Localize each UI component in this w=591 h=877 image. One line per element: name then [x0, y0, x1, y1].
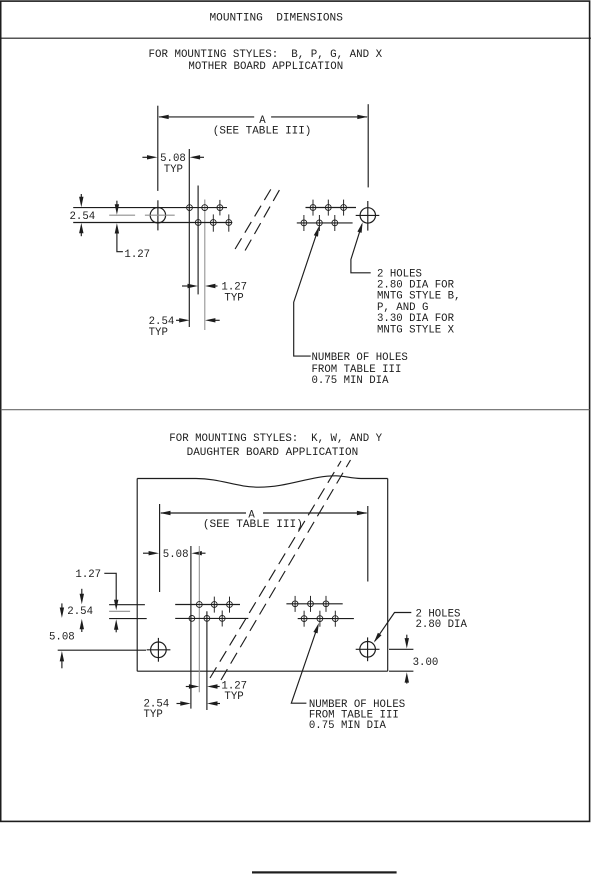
- pin hole tick: [325, 596, 327, 612]
- pin hole top row: [217, 205, 223, 211]
- left mounting hole horizontal crosshair (bottom): [147, 649, 171, 651]
- svg-text:0.75 MIN DIA: 0.75 MIN DIA: [312, 375, 389, 387]
- svg-text:2.54: 2.54: [67, 606, 93, 618]
- board outline right edge: [387, 479, 389, 672]
- 2.54 dim lower arrowhead (bottom): [80, 619, 84, 629]
- 1.27 TYP left arrowhead (bottom): [189, 684, 199, 688]
- gray extension line thru top-row hole 2: [204, 200, 206, 331]
- board outline top edge with break wave: [137, 476, 388, 487]
- right pin hole top row: [341, 205, 347, 211]
- 1.27 dim lower arrow shaft (bottom): [115, 626, 117, 632]
- 3.00 dim upper arrowhead: [405, 638, 409, 648]
- lower row centerline (bottom right group): [298, 618, 354, 620]
- 1.27 dim upper arrowhead: [115, 204, 119, 214]
- 2.54 TYP right arrowhead (bottom): [207, 701, 217, 705]
- 1.27 TYP right arrow tail: [211, 285, 218, 287]
- pin hole bottom row: [210, 220, 216, 226]
- pin hole tick: [327, 200, 329, 216]
- 1.27 dim leader bracket (bottom): [104, 573, 116, 602]
- right top row centerline: [306, 207, 357, 209]
- 1.27 dim upper arrow shaft: [116, 201, 118, 208]
- right mounting hole horizontal crosshair (bottom): [356, 648, 380, 650]
- pin hole tick: [221, 611, 223, 627]
- dim A left arrowhead (bottom): [160, 511, 170, 515]
- pin hole top row: [202, 205, 208, 211]
- upper row centerline (bottom right group): [286, 603, 342, 605]
- upper row centerline (bottom left group): [175, 604, 240, 606]
- pin hole lower row (bottom left): [219, 616, 225, 622]
- pin hole tick: [219, 200, 221, 216]
- pin hole bottom row: [226, 220, 232, 226]
- 2.54 dim upper arrowhead (bottom): [80, 594, 84, 604]
- dim A line right segment: [271, 116, 367, 118]
- svg-text:0.75 MIN DIA: 0.75 MIN DIA: [309, 720, 386, 732]
- svg-text:5.08: 5.08: [163, 549, 189, 561]
- svg-text:(SEE TABLE III): (SEE TABLE III): [213, 126, 312, 138]
- 1.27 dim leader bracket: [117, 230, 123, 252]
- 2.54 dim upper arrow shaft (bottom): [81, 589, 83, 597]
- svg-text:1.27: 1.27: [75, 569, 101, 581]
- pin hole lower row (bottom right): [317, 616, 323, 622]
- 2.54 dim lower arrow shaft (bottom): [81, 626, 83, 632]
- svg-text:MOUNTING DIMENSIONS: MOUNTING DIMENSIONS: [210, 13, 344, 25]
- 1.27 dim lower arrowhead: [115, 223, 119, 233]
- pin hole upper row (bottom right): [308, 601, 314, 607]
- pin hole upper row (bottom left): [227, 602, 233, 608]
- pin hole tick: [343, 200, 345, 216]
- pin hole tick: [334, 611, 336, 627]
- dim A line left segment (bottom): [161, 512, 246, 514]
- svg-text:MOTHER BOARD APPLICATION: MOTHER BOARD APPLICATION: [188, 61, 343, 73]
- svg-text:2 HOLES: 2 HOLES: [377, 268, 422, 280]
- svg-text:5.08: 5.08: [49, 631, 75, 643]
- upper row extension line (bottom): [109, 604, 145, 606]
- 5.08 dim left arrowhead (bottom): [149, 551, 159, 555]
- 2.54 TYP right arrowhead: [205, 318, 215, 322]
- right bottom row centerline: [297, 222, 353, 224]
- 1.27 TYP right arrowhead: [205, 284, 215, 288]
- extension line thru lower-row hole 1 (bottom): [190, 546, 192, 709]
- pin hole tick: [310, 596, 312, 612]
- pin hole upper row (bottom left): [196, 602, 202, 608]
- svg-text:2.80 DIA FOR: 2.80 DIA FOR: [377, 280, 454, 292]
- 2 HOLES leader arrowhead: [357, 222, 362, 233]
- svg-text:TYP: TYP: [144, 709, 164, 721]
- left mounting hole vertical crosshair (bottom): [157, 638, 159, 662]
- 1.27 dim upper arrowhead (bottom): [114, 600, 118, 610]
- pin hole upper row (bottom left): [211, 602, 217, 608]
- pin hole tick: [312, 200, 314, 216]
- board outline bottom edge: [137, 670, 388, 672]
- right pin hole top row: [310, 205, 316, 211]
- svg-text:TYP: TYP: [224, 292, 244, 304]
- pin hole tick: [318, 215, 320, 231]
- 2 HOLES leader line (bottom): [375, 613, 412, 642]
- extension line thru top-row hole 1: [188, 149, 190, 327]
- left mounting hole horizontal crosshair: [145, 214, 175, 216]
- 2.54 TYP left arrowhead (bottom): [180, 701, 190, 705]
- 1.27 dim lower arrowhead (bottom): [114, 619, 118, 629]
- 5.08 dim lower arrowhead (bottom left): [60, 651, 64, 661]
- gray mid centerline (bottom): [109, 610, 130, 612]
- lower row centerline (bottom left group): [175, 617, 248, 619]
- pin hole upper row (bottom right): [323, 601, 329, 607]
- dim A left extension line (bottom): [159, 504, 161, 592]
- NUMBER OF HOLES leader line: [294, 228, 319, 356]
- left mounting hole (bottom): [151, 642, 167, 658]
- 2.54 TYP left arrow tail (bottom): [177, 703, 182, 705]
- extension line thru lower-row hole 2 (bottom): [206, 611, 208, 710]
- svg-text:TYP: TYP: [224, 691, 244, 703]
- 3.00 dim lower arrow shaft: [406, 679, 408, 683]
- dim A line right segment (bottom): [263, 512, 367, 514]
- 5.08 dim upper arrowhead (bottom left): [60, 608, 64, 618]
- extension line thru bottom-row hole 1: [197, 186, 199, 295]
- svg-text:FOR MOUNTING STYLES: K, W, AN: FOR MOUNTING STYLES: K, W, AND Y: [169, 433, 382, 445]
- pin hole tick: [228, 214, 230, 231]
- 5.08 dim left arrowhead: [147, 155, 157, 159]
- pin hole tick: [212, 214, 214, 231]
- 5.08 dim left arrow tail (bottom): [143, 552, 151, 554]
- 2.54 dim upper arrow shaft: [80, 194, 82, 200]
- 5.08 dim right arrowhead: [190, 155, 200, 159]
- board outline left edge: [136, 479, 138, 672]
- top row centerline: [73, 207, 227, 209]
- svg-text:2.80 DIA: 2.80 DIA: [416, 619, 468, 631]
- dim A right arrowhead (bottom): [357, 511, 367, 515]
- 1.27 TYP left arrow tail: [182, 285, 190, 287]
- 2 HOLES leader arrowhead (bottom): [374, 633, 382, 643]
- 5.08 dim upper arrow shaft (bottom left): [61, 603, 63, 610]
- 2.54 dim upper arrowhead: [79, 197, 83, 207]
- pin hole lower row (bottom right): [332, 616, 338, 622]
- svg-text:(SEE TABLE III): (SEE TABLE III): [203, 519, 303, 531]
- break line 1: [235, 187, 272, 250]
- pin hole top row: [187, 205, 193, 211]
- bottom row centerline: [73, 222, 232, 224]
- 5.08 dim right arrow tail: [196, 156, 204, 158]
- right pin hole bottom row: [332, 220, 338, 226]
- svg-text:FROM TABLE III: FROM TABLE III: [312, 364, 402, 376]
- dim A left extension line: [157, 106, 159, 191]
- 2.54 TYP left arrow tail: [176, 319, 181, 321]
- right mounting hole vertical crosshair: [367, 201, 369, 231]
- pin hole tick: [294, 596, 296, 612]
- svg-text:TYP: TYP: [149, 327, 169, 339]
- svg-text:NUMBER OF HOLES: NUMBER OF HOLES: [312, 352, 409, 364]
- svg-text:P, AND G: P, AND G: [377, 302, 429, 314]
- section divider line: [1, 409, 590, 411]
- svg-text:1.27: 1.27: [124, 249, 150, 261]
- pin hole tick: [334, 215, 336, 231]
- 5.08 dim lower arrow shaft (bottom left): [61, 658, 63, 668]
- 1.27 TYP left arrowhead: [188, 284, 198, 288]
- right mounting hole vertical crosshair (bottom): [367, 637, 369, 661]
- pin hole bottom row: [195, 220, 201, 226]
- pin hole lower row (bottom left): [189, 616, 195, 622]
- pin hole tick: [213, 597, 215, 613]
- 2.54 TYP right arrow tail (bottom): [214, 703, 221, 705]
- svg-text:2.54: 2.54: [70, 211, 96, 223]
- pin hole tick: [303, 611, 305, 627]
- dim A left arrowhead: [158, 115, 168, 119]
- left mounting hole: [150, 208, 165, 223]
- lower row extension line (bottom): [109, 618, 147, 620]
- 2.54 TYP right arrow tail: [211, 319, 220, 321]
- 2.54 TYP left arrowhead: [179, 318, 189, 322]
- mounting hole centerline extension right (bottom): [389, 648, 413, 650]
- 1.27 TYP left arrow tail (bottom): [186, 686, 191, 688]
- pin hole lower row (bottom right): [301, 616, 307, 622]
- break line 1 (bottom): [210, 461, 341, 678]
- pin hole upper row (bottom right): [292, 601, 298, 607]
- footer bar: [252, 871, 397, 873]
- 2 HOLES leader line: [351, 225, 371, 273]
- 3.00 dim lower arrowhead: [405, 672, 409, 682]
- NUMBER OF HOLES leader arrowhead: [314, 226, 319, 237]
- 2.54 dim lower arrow shaft: [80, 230, 82, 236]
- svg-text:FOR MOUNTING STYLES: B, P, G,: FOR MOUNTING STYLES: B, P, G, AND X: [149, 49, 383, 61]
- svg-text:3.00: 3.00: [413, 657, 439, 669]
- break line 2: [245, 186, 282, 251]
- 1.27 TYP right arrowhead (bottom): [207, 684, 217, 688]
- right mounting hole horizontal crosshair: [356, 214, 380, 216]
- NUMBER OF HOLES leader line (bottom): [291, 626, 318, 704]
- 5.08 dim left arrow tail: [142, 156, 151, 158]
- right mounting hole: [360, 208, 375, 223]
- break line 2 (bottom): [221, 460, 351, 680]
- NUMBER OF HOLES leader arrowhead (bottom): [313, 623, 319, 634]
- svg-text:3.30 DIA FOR: 3.30 DIA FOR: [377, 313, 454, 325]
- right mounting hole (bottom): [360, 642, 376, 658]
- svg-text:TYP: TYP: [164, 164, 184, 176]
- left mounting hole vertical crosshair: [157, 200, 159, 230]
- pin hole tick: [229, 597, 231, 613]
- svg-text:MNTG STYLE B,: MNTG STYLE B,: [377, 291, 461, 303]
- dim A right extension line: [367, 104, 369, 187]
- 5.08 dim right arrow tail (bottom): [198, 552, 206, 554]
- 5.08 dim right arrowhead (bottom): [191, 551, 201, 555]
- svg-text:MNTG STYLE X: MNTG STYLE X: [377, 324, 454, 336]
- right pin hole bottom row: [301, 220, 307, 226]
- gray extension line thru upper-row hole 1 (bottom): [198, 546, 200, 692]
- right pin hole bottom row: [317, 220, 323, 226]
- pin hole tick: [303, 215, 305, 231]
- board bottom edge extension (bottom): [389, 670, 413, 672]
- dim A right arrowhead: [357, 115, 367, 119]
- dim A right extension line (bottom): [367, 506, 369, 582]
- dim A line left segment: [159, 116, 254, 118]
- 3.00 dim upper arrow shaft: [406, 635, 408, 642]
- title box divider line: [0, 37, 591, 39]
- 1.27 TYP right arrow tail (bottom): [214, 686, 220, 688]
- right pin hole top row: [325, 205, 331, 211]
- gray mid centerline: [109, 214, 135, 216]
- svg-text:DAUGHTER BOARD APPLICATION: DAUGHTER BOARD APPLICATION: [187, 447, 359, 459]
- pin hole lower row (bottom left): [204, 616, 210, 622]
- pin hole tick: [319, 611, 321, 627]
- mounting hole centerline extension (bottom): [58, 649, 146, 651]
- 2.54 dim lower arrowhead: [79, 223, 83, 233]
